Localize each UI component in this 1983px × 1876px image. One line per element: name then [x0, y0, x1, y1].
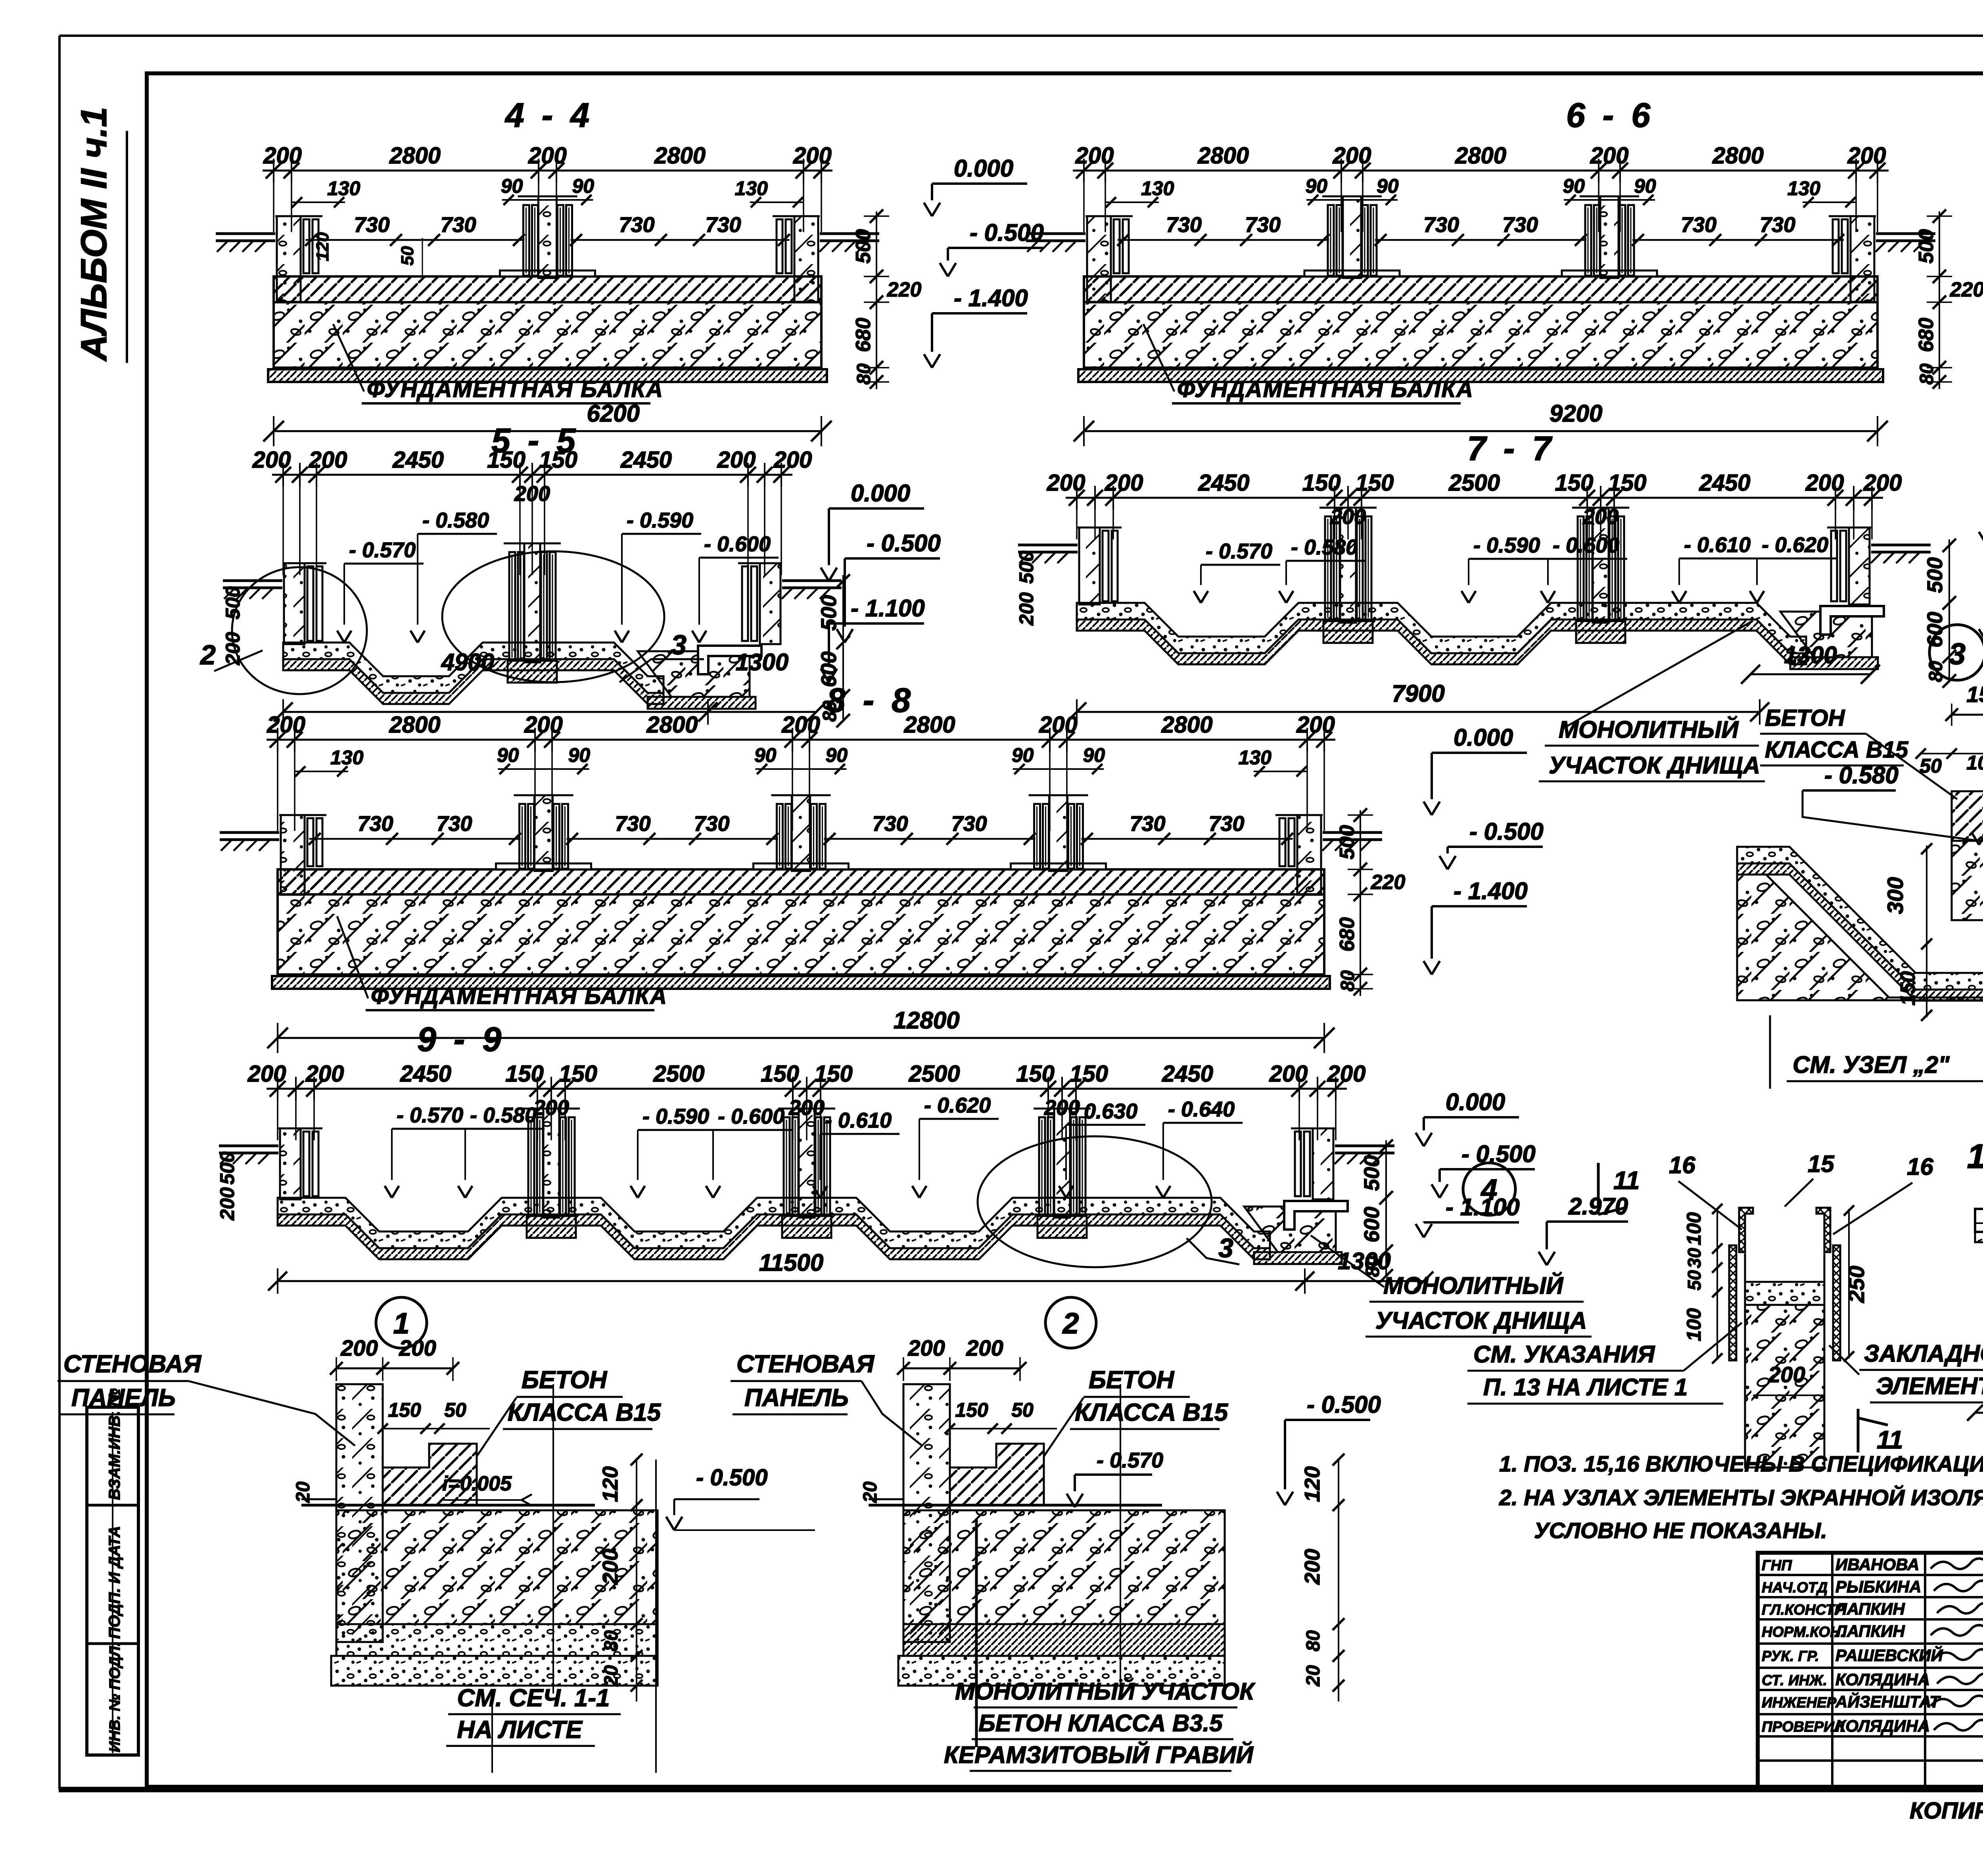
svg-text:ГНП: ГНП: [1762, 1557, 1792, 1573]
svg-text:2. НА УЗЛАХ ЭЛЕМЕНТЫ ЭКРАНН: 2. НА УЗЛАХ ЭЛЕМЕНТЫ ЭКРАННОЙ ИЗОЛЯЦИИ С…: [1499, 1485, 1983, 1510]
svg-text:90: 90: [826, 744, 848, 766]
svg-text:КОЛЯДИНА: КОЛЯДИНА: [1835, 1717, 1930, 1735]
svg-text:150: 150: [1555, 470, 1594, 496]
svg-text:2500: 2500: [1448, 470, 1500, 496]
svg-text:100: 100: [1683, 1308, 1705, 1341]
svg-text:200: 200: [1805, 470, 1844, 496]
svg-text:2450: 2450: [392, 447, 444, 473]
svg-text:2450: 2450: [620, 447, 672, 473]
svg-text:УЧАСТОК ДНИЩА: УЧАСТОК ДНИЩА: [1375, 1307, 1587, 1334]
svg-text:200: 200: [1047, 470, 1085, 496]
svg-text:ПРОВЕРИЛ: ПРОВЕРИЛ: [1762, 1719, 1845, 1735]
svg-text:- 1.400: - 1.400: [954, 285, 1028, 311]
svg-text:220: 220: [1371, 871, 1406, 894]
svg-text:РУК. ГР.: РУК. ГР.: [1762, 1648, 1819, 1664]
svg-text:2800: 2800: [1455, 143, 1506, 169]
svg-text:2450: 2450: [400, 1061, 451, 1087]
svg-text:ФУНДАМЕНТНАЯ БАЛКА: ФУНДАМЕНТНАЯ БАЛКА: [1177, 376, 1474, 402]
svg-text:4900: 4900: [441, 649, 494, 675]
svg-text:1: 1: [393, 1307, 409, 1340]
svg-text:МОНОЛИТНЫЙ: МОНОЛИТНЫЙ: [1383, 1272, 1564, 1299]
svg-text:ФУНДАМЕНТНАЯ БАЛКА: ФУНДАМЕНТНАЯ БАЛКА: [367, 376, 664, 402]
svg-text:15: 15: [1808, 1151, 1835, 1177]
svg-text:30: 30: [1684, 1248, 1705, 1268]
svg-text:- 0.500: - 0.500: [867, 530, 941, 556]
svg-text:200: 200: [1847, 143, 1886, 169]
svg-text:730: 730: [1166, 213, 1202, 237]
svg-text:500: 500: [817, 595, 841, 631]
svg-text:ЛАПКИН: ЛАПКИН: [1834, 1600, 1905, 1618]
svg-text:730: 730: [440, 213, 476, 237]
svg-text:1. ПОЗ. 15,16 ВКЛЮЧЕНЫ В СП: 1. ПОЗ. 15,16 ВКЛЮЧЕНЫ В СПЕЦИФИКАЦИЮ НА…: [1499, 1451, 1983, 1476]
svg-text:730: 730: [705, 213, 741, 237]
svg-text:50: 50: [398, 246, 417, 265]
svg-text:- 0.570: - 0.570: [1097, 1448, 1163, 1472]
svg-text:200: 200: [252, 447, 291, 473]
svg-text:680: 680: [852, 318, 875, 352]
svg-text:6 - 6: 6 - 6: [1566, 96, 1654, 134]
svg-text:500: 500: [1915, 229, 1938, 264]
svg-text:- 0.580: - 0.580: [470, 1103, 537, 1127]
svg-text:730: 730: [1245, 213, 1281, 237]
svg-text:200: 200: [781, 712, 820, 738]
svg-text:3: 3: [1218, 1233, 1233, 1263]
svg-text:130: 130: [1239, 746, 1272, 769]
svg-text:730: 730: [1760, 213, 1795, 237]
svg-text:9 - 9: 9 - 9: [417, 1020, 505, 1059]
svg-text:ИНЖЕНЕР: ИНЖЕНЕР: [1762, 1694, 1837, 1711]
svg-text:2450: 2450: [1699, 470, 1750, 496]
svg-text:50: 50: [1684, 1270, 1705, 1291]
svg-text:- 1.100: - 1.100: [851, 595, 925, 621]
svg-text:200: 200: [773, 447, 812, 473]
svg-text:200: 200: [598, 1549, 622, 1585]
svg-text:- 0.610: - 0.610: [825, 1109, 892, 1132]
svg-text:РАШЕВСКИЙ: РАШЕВСКИЙ: [1835, 1645, 1943, 1665]
svg-text:730: 730: [1681, 213, 1716, 237]
svg-text:90: 90: [1377, 175, 1399, 197]
svg-text:90: 90: [568, 744, 591, 766]
svg-text:0.000: 0.000: [1454, 724, 1513, 751]
svg-text:730: 730: [619, 213, 654, 237]
svg-text:7900: 7900: [1392, 680, 1444, 707]
svg-text:НАЧ.ОТД: НАЧ.ОТД: [1762, 1579, 1828, 1596]
svg-text:150: 150: [1356, 470, 1394, 496]
svg-text:9200: 9200: [1550, 400, 1602, 427]
svg-text:200: 200: [1333, 143, 1371, 169]
svg-text:150: 150: [539, 447, 577, 473]
svg-text:16: 16: [1907, 1153, 1933, 1180]
svg-text:220: 220: [1950, 278, 1983, 301]
svg-text:РЫБКИНА: РЫБКИНА: [1835, 1577, 1921, 1596]
svg-text:220: 220: [887, 278, 922, 301]
svg-text:600: 600: [817, 651, 841, 687]
svg-text:АЙЗЕНШТАТ: АЙЗЕНШТАТ: [1835, 1692, 1941, 1711]
svg-text:90: 90: [1634, 175, 1656, 197]
svg-text:90: 90: [754, 744, 777, 766]
svg-text:2800: 2800: [389, 143, 441, 169]
svg-text:100: 100: [1966, 752, 1983, 774]
svg-text:ВЗАМ.ИНВ. №: ВЗАМ.ИНВ. №: [106, 1388, 123, 1500]
svg-text:- 0.630: - 0.630: [1071, 1099, 1137, 1123]
svg-text:130: 130: [1787, 177, 1821, 199]
svg-text:16: 16: [1669, 1152, 1695, 1178]
svg-text:0.000: 0.000: [954, 155, 1013, 182]
svg-text:2: 2: [1062, 1307, 1079, 1340]
svg-text:500: 500: [1015, 551, 1038, 584]
svg-text:120: 120: [598, 1466, 622, 1502]
svg-text:2500: 2500: [653, 1061, 704, 1087]
svg-text:1300: 1300: [1784, 642, 1837, 668]
svg-text:90: 90: [1305, 175, 1327, 197]
svg-text:130: 130: [327, 177, 361, 199]
svg-text:4: 4: [1480, 1173, 1497, 1206]
svg-text:200: 200: [305, 1061, 344, 1087]
svg-text:КОПИРОВАЛ: Стержакова: КОПИРОВАЛ: Стержакова: [1910, 1798, 1983, 1824]
svg-text:- 1.400: - 1.400: [1454, 878, 1528, 904]
svg-text:150: 150: [559, 1061, 597, 1087]
svg-text:200: 200: [340, 1335, 378, 1360]
svg-text:50: 50: [1011, 1399, 1034, 1421]
svg-text:БЕТОН КЛАССА В3.5: БЕТОН КЛАССА В3.5: [978, 1710, 1223, 1736]
svg-text:- 0.610: - 0.610: [1684, 533, 1751, 557]
svg-text:КЛАССА В15: КЛАССА В15: [508, 1399, 662, 1426]
svg-text:500: 500: [216, 1151, 238, 1185]
svg-text:ЭЛЕМЕНТ: ЭЛЕМЕНТ: [1876, 1373, 1983, 1399]
svg-text:200: 200: [528, 143, 567, 169]
svg-text:- 0.600: - 0.600: [1553, 533, 1619, 557]
svg-text:730: 730: [694, 812, 729, 836]
svg-text:130: 130: [330, 746, 364, 769]
svg-text:УЧАСТОК ДНИЩА: УЧАСТОК ДНИЩА: [1549, 752, 1760, 779]
svg-text:СТЕНОВАЯ: СТЕНОВАЯ: [736, 1350, 875, 1378]
svg-text:200: 200: [216, 1187, 238, 1221]
svg-text:730: 730: [951, 812, 987, 836]
svg-text:730: 730: [357, 812, 393, 836]
svg-text:11500: 11500: [759, 1249, 823, 1276]
svg-text:7 - 7: 7 - 7: [1467, 430, 1555, 468]
svg-text:200: 200: [1768, 1362, 1805, 1387]
svg-text:120: 120: [1300, 1466, 1324, 1502]
svg-text:1300: 1300: [736, 649, 788, 675]
svg-text:730: 730: [1423, 213, 1459, 237]
svg-text:150: 150: [761, 1061, 799, 1087]
svg-text:200: 200: [267, 712, 305, 738]
svg-text:КОЛЯДИНА: КОЛЯДИНА: [1835, 1670, 1930, 1689]
svg-text:- 0.500: - 0.500: [696, 1465, 768, 1490]
svg-text:150: 150: [1070, 1061, 1108, 1087]
svg-text:БЕТОН: БЕТОН: [522, 1366, 608, 1394]
svg-text:600: 600: [1360, 1207, 1384, 1242]
svg-text:200: 200: [1327, 1061, 1366, 1087]
svg-text:- 0.590: - 0.590: [642, 1105, 709, 1128]
svg-text:2450: 2450: [1198, 470, 1249, 496]
svg-text:ИВАНОВА: ИВАНОВА: [1835, 1555, 1919, 1574]
svg-text:200: 200: [1590, 143, 1629, 169]
svg-text:200: 200: [514, 482, 550, 506]
svg-text:- 0.570: - 0.570: [397, 1103, 463, 1127]
svg-text:150: 150: [1608, 470, 1647, 496]
svg-text:200: 200: [263, 143, 302, 169]
svg-text:730: 730: [1208, 812, 1244, 836]
svg-text:МОНОЛИТНЫЙ: МОНОЛИТНЫЙ: [1559, 716, 1739, 743]
svg-text:2500: 2500: [908, 1061, 960, 1087]
svg-text:НА ЛИСТЕ: НА ЛИСТЕ: [457, 1716, 583, 1744]
svg-text:90: 90: [1083, 744, 1105, 766]
svg-text:2800: 2800: [1712, 143, 1764, 169]
svg-text:130: 130: [735, 177, 768, 199]
svg-text:150: 150: [487, 447, 525, 473]
svg-text:СМ. УЗЕЛ „2": СМ. УЗЕЛ „2": [1793, 1051, 1950, 1078]
svg-text:4 - 4: 4 - 4: [504, 96, 593, 134]
svg-text:120: 120: [313, 232, 332, 261]
svg-text:- 0.580: - 0.580: [422, 508, 489, 532]
svg-text:150: 150: [1966, 682, 1983, 707]
svg-text:2800: 2800: [646, 712, 698, 738]
svg-text:6200: 6200: [587, 400, 639, 427]
svg-text:МОНОЛИТНЫЙ УЧАСТОК: МОНОЛИТНЫЙ УЧАСТОК: [955, 1678, 1256, 1705]
svg-text:0.000: 0.000: [1446, 1089, 1505, 1115]
svg-text:150: 150: [955, 1399, 988, 1421]
svg-text:90: 90: [497, 744, 519, 766]
svg-text:80: 80: [853, 363, 875, 385]
svg-text:- 0.600: - 0.600: [718, 1105, 784, 1128]
svg-text:УСЛОВНО НЕ ПОКАЗАНЫ.: УСЛОВНО НЕ ПОКАЗАНЫ.: [1534, 1518, 1827, 1543]
svg-text:3: 3: [671, 629, 687, 660]
svg-text:730: 730: [354, 213, 389, 237]
svg-text:80: 80: [1337, 970, 1358, 992]
svg-text:2800: 2800: [1197, 143, 1249, 169]
svg-text:2450: 2450: [1162, 1061, 1213, 1087]
svg-text:- 0.570: - 0.570: [349, 538, 416, 562]
svg-text:500: 500: [1923, 557, 1947, 593]
svg-text:20: 20: [860, 1481, 881, 1503]
svg-text:ФУНДАМЕНТНАЯ БАЛКА: ФУНДАМЕНТНАЯ БАЛКА: [371, 983, 667, 1009]
svg-text:500: 500: [222, 586, 244, 620]
svg-text:200: 200: [793, 143, 832, 169]
svg-text:ГЛ.КОНСТР: ГЛ.КОНСТР: [1762, 1602, 1845, 1618]
svg-text:12800: 12800: [894, 1007, 960, 1034]
svg-text:80: 80: [1303, 1630, 1324, 1652]
svg-text:АЛЬБОМ II ч.1: АЛЬБОМ II ч.1: [74, 107, 114, 362]
svg-text:ЗАКЛАДНОЙ: ЗАКЛАДНОЙ: [1864, 1340, 1983, 1367]
svg-text:20: 20: [293, 1481, 314, 1503]
svg-text:200: 200: [966, 1335, 1003, 1360]
svg-text:2800: 2800: [1161, 712, 1212, 738]
svg-text:- 0.580: - 0.580: [1291, 535, 1358, 559]
svg-text:ПАНЕЛЬ: ПАНЕЛЬ: [744, 1384, 849, 1412]
svg-text:КЛАССА В15: КЛАССА В15: [1075, 1399, 1229, 1426]
svg-text:БЕТОН: БЕТОН: [1089, 1366, 1175, 1394]
svg-text:150: 150: [1897, 971, 1920, 1006]
svg-text:680: 680: [1915, 318, 1938, 352]
svg-text:ИНВ. № ПОДЛ.: ИНВ. № ПОДЛ.: [107, 1642, 123, 1752]
svg-text:200: 200: [1269, 1061, 1308, 1087]
svg-text:- 0.620: - 0.620: [1762, 533, 1828, 557]
svg-text:НОРМ.КОН.: НОРМ.КОН.: [1762, 1624, 1845, 1640]
svg-text:200: 200: [399, 1335, 436, 1360]
svg-text:ПОДП. И ДАТА: ПОДП. И ДАТА: [106, 1526, 123, 1639]
svg-text:КЕРАМЗИТОВЫЙ ГРАВИЙ: КЕРАМЗИТОВЫЙ ГРАВИЙ: [944, 1741, 1254, 1768]
svg-text:11: 11: [1877, 1425, 1903, 1454]
svg-text:2: 2: [199, 639, 216, 670]
svg-text:80: 80: [1916, 363, 1937, 385]
svg-text:СТЕНОВАЯ: СТЕНОВАЯ: [63, 1350, 202, 1378]
svg-text:150: 150: [1016, 1061, 1055, 1087]
svg-text:100: 100: [1683, 1212, 1705, 1245]
svg-text:730: 730: [1502, 213, 1538, 237]
svg-text:- 0.640: - 0.640: [1168, 1097, 1235, 1121]
svg-text:200: 200: [1296, 712, 1335, 738]
svg-text:200: 200: [309, 447, 347, 473]
svg-text:80: 80: [601, 1630, 622, 1652]
svg-text:500: 500: [852, 229, 875, 264]
svg-text:- 0.570: - 0.570: [1206, 539, 1272, 563]
svg-text:11 - 11: 11 - 11: [1967, 1137, 1983, 1176]
svg-text:СМ. УКАЗАНИЯ: СМ. УКАЗАНИЯ: [1473, 1341, 1655, 1368]
svg-text:90: 90: [1012, 744, 1034, 766]
svg-text:11: 11: [1613, 1166, 1640, 1195]
svg-text:90: 90: [501, 175, 523, 197]
svg-text:200: 200: [907, 1335, 945, 1360]
svg-text:730: 730: [615, 812, 650, 836]
svg-text:СМ. СЕЧ. 1-1: СМ. СЕЧ. 1-1: [457, 1684, 610, 1712]
svg-text:200: 200: [1863, 470, 1902, 496]
svg-text:200: 200: [1015, 592, 1038, 626]
svg-text:150: 150: [505, 1061, 544, 1087]
svg-text:500: 500: [1336, 825, 1359, 859]
svg-text:300: 300: [1883, 877, 1908, 914]
svg-text:П. 13 НА ЛИСТЕ 1: П. 13 НА ЛИСТЕ 1: [1483, 1374, 1688, 1400]
svg-text:90: 90: [1563, 175, 1585, 197]
svg-text:СТ. ИНЖ.: СТ. ИНЖ.: [1762, 1672, 1827, 1688]
svg-text:- 0.620: - 0.620: [924, 1093, 991, 1117]
svg-text:20: 20: [601, 1665, 622, 1687]
svg-text:2800: 2800: [903, 712, 955, 738]
svg-text:200: 200: [717, 447, 756, 473]
svg-text:БЕТОН: БЕТОН: [1765, 705, 1845, 731]
svg-text:150: 150: [388, 1399, 421, 1421]
svg-text:i=0.005: i=0.005: [442, 1472, 512, 1495]
svg-text:- 0.590: - 0.590: [1473, 533, 1540, 557]
svg-text:130: 130: [1141, 177, 1174, 199]
svg-text:90: 90: [572, 175, 595, 197]
svg-text:200: 200: [1075, 143, 1114, 169]
svg-text:0.000: 0.000: [851, 480, 910, 506]
svg-text:- 0.600: - 0.600: [704, 532, 771, 556]
svg-text:2.970: 2.970: [1568, 1193, 1628, 1220]
svg-text:200: 200: [247, 1061, 286, 1087]
svg-text:- 0.500: - 0.500: [1307, 1391, 1381, 1418]
svg-text:250: 250: [1844, 1266, 1869, 1303]
svg-text:- 0.590: - 0.590: [627, 508, 693, 532]
svg-text:500: 500: [1360, 1155, 1384, 1191]
svg-text:200: 200: [1105, 470, 1143, 496]
svg-text:ЛАПКИН: ЛАПКИН: [1834, 1622, 1905, 1640]
svg-text:730: 730: [1130, 812, 1165, 836]
svg-text:730: 730: [436, 812, 472, 836]
svg-text:2800: 2800: [389, 712, 440, 738]
svg-text:50: 50: [444, 1399, 466, 1421]
svg-text:2800: 2800: [654, 143, 706, 169]
svg-text:200: 200: [524, 712, 563, 738]
svg-text:680: 680: [1336, 917, 1359, 952]
svg-text:150: 150: [814, 1061, 853, 1087]
svg-text:- 0.500: - 0.500: [1469, 818, 1544, 845]
svg-text:730: 730: [872, 812, 908, 836]
svg-text:200: 200: [1300, 1549, 1324, 1585]
svg-text:80: 80: [819, 700, 840, 722]
svg-text:3: 3: [1949, 637, 1966, 671]
svg-text:150: 150: [1302, 470, 1341, 496]
svg-text:20: 20: [1303, 1665, 1324, 1687]
